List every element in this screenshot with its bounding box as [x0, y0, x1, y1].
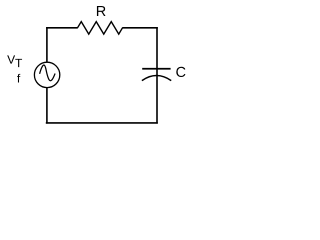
- wire left upper: [46, 27, 48, 62]
- wire right vertical (through capacitor): [156, 27, 158, 124]
- wire top-left segment: [46, 27, 78, 29]
- wire top-right segment: [122, 27, 158, 29]
- label R: [97, 6, 106, 16]
- wire bottom: [46, 122, 158, 124]
- label f: [17, 74, 20, 83]
- AC source sine wave: [40, 65, 56, 81]
- resistor R: [78, 22, 123, 34]
- wire left lower: [46, 88, 48, 124]
- AC voltage source VT circle: [34, 62, 59, 87]
- label V: [7, 55, 15, 63]
- capacitor C top plate: [142, 68, 170, 70]
- label T (subscript): [15, 59, 22, 67]
- label C: [176, 67, 185, 77]
- capacitor C bottom curved plate: [142, 76, 171, 81]
